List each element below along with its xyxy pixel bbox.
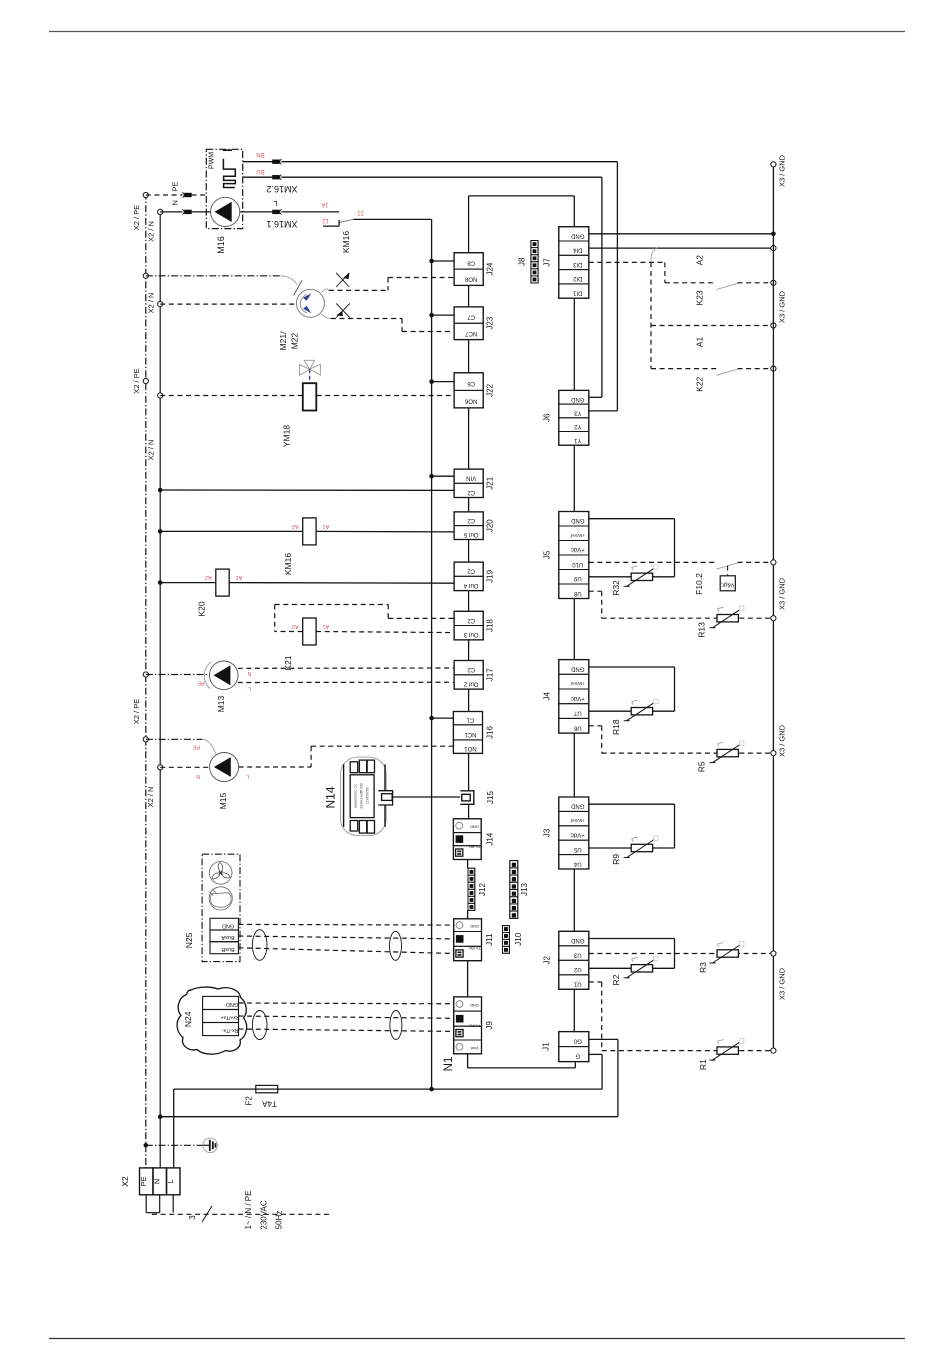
svg-text:Out 4: Out 4 <box>463 582 478 588</box>
label M21/ <box>278 331 288 351</box>
svg-text:+Vdc: +Vdc <box>571 695 585 701</box>
contact KM16 terminal 12 <box>323 220 339 226</box>
terminal N24 Rx+/Tx+ <box>203 1010 240 1023</box>
wire YM18 to NO6 dashed <box>317 395 454 397</box>
cable marker N25 far <box>390 931 402 960</box>
label M15 PE <box>193 744 201 750</box>
pin XM16.1 L <box>272 209 281 214</box>
junction bus J24 <box>429 259 434 264</box>
svg-text:Vout: Vout <box>470 1046 479 1051</box>
wire BU down to J6 GND <box>589 177 602 397</box>
svg-text:X3 / GND: X3 / GND <box>778 154 787 187</box>
label N <box>171 200 180 205</box>
svg-text:K23: K23 <box>695 290 705 305</box>
cable marker N24 near <box>252 1011 267 1040</box>
wire chain J24-J23 <box>468 285 470 307</box>
label BU <box>256 168 264 174</box>
connector J19 <box>454 562 494 591</box>
wire J5 U10 dashed <box>589 561 774 563</box>
svg-text:J4: J4 <box>543 692 552 701</box>
svg-text:L: L <box>248 685 251 691</box>
svg-text:N: N <box>196 773 200 779</box>
svg-text:XM16.1: XM16.1 <box>266 219 297 229</box>
wire M21 upper switch to NO8 <box>329 278 454 291</box>
wire K22 line <box>651 368 773 370</box>
connector J7 <box>543 227 589 299</box>
wire X2 stubs <box>146 1195 173 1213</box>
svg-text:M13: M13 <box>216 695 226 712</box>
svg-text:J20: J20 <box>486 519 495 532</box>
header J8 <box>517 241 538 284</box>
svg-text:BusA: BusA <box>221 934 234 940</box>
module N14 buttons bottom <box>350 821 374 834</box>
svg-text:NO6: NO6 <box>464 398 477 404</box>
wire J2 GND loop <box>589 939 675 969</box>
wire chain J3-J2 <box>573 869 575 931</box>
svg-text:C6: C6 <box>467 380 475 386</box>
leader M21 PE <box>281 276 302 296</box>
node X2/N tap M21 <box>147 293 163 314</box>
svg-text:DI3: DI3 <box>572 261 582 267</box>
leader M13 PE <box>204 662 211 689</box>
label PE <box>171 181 180 191</box>
label T4A <box>262 1099 277 1108</box>
wire M13 PE <box>146 674 208 676</box>
svg-text:G: G <box>575 1053 580 1059</box>
node U10 circle <box>771 560 776 565</box>
connector J11 <box>454 919 494 961</box>
svg-text:X3 / GND: X3 / GND <box>778 967 787 1000</box>
svg-text:ddddeeeeffff 999: ddddeeeeffff 999 <box>359 783 363 808</box>
pin XM16.2 BU <box>272 175 281 180</box>
junction X2/N K20 <box>158 580 163 585</box>
node X2/PE tap M13 <box>132 672 148 724</box>
wire J9 Vout to J1 G <box>468 1054 576 1068</box>
leader M15 PE <box>203 739 216 754</box>
wire M16 PE to rail <box>146 194 207 196</box>
wire N long <box>160 1116 618 1118</box>
motor M21/M22 arc arrow <box>300 293 311 313</box>
wire chain J20-J19 <box>468 540 470 563</box>
svg-text:X2 / PE: X2 / PE <box>132 699 141 724</box>
svg-text:DI4: DI4 <box>572 247 582 253</box>
terminal N25 BusA <box>210 930 238 942</box>
module N14 plug <box>378 791 392 805</box>
node R3 circle <box>771 951 776 956</box>
label 3 <box>188 1215 197 1220</box>
svg-text:J19: J19 <box>486 569 495 582</box>
wire X2/PE rail <box>145 193 147 1168</box>
svg-text:DI2: DI2 <box>572 275 582 281</box>
svg-text:14: 14 <box>321 201 328 207</box>
label R5 <box>697 761 707 772</box>
svg-text:+5V/ref: +5V/ref <box>570 533 585 538</box>
wire M13 N <box>238 667 454 669</box>
wire bus to J1 G <box>432 1054 602 1089</box>
pin XM16.2 BN <box>272 159 281 164</box>
label K20 <box>196 601 206 616</box>
connector J18 <box>454 611 494 640</box>
label A2 <box>695 255 705 266</box>
wire K23 line <box>665 282 774 284</box>
wire M16 L <box>240 211 339 213</box>
resistor R3 (NTC sensor) <box>710 942 744 964</box>
svg-text:U6: U6 <box>573 724 581 730</box>
label supply <box>244 1191 283 1230</box>
wire 21 to bus <box>353 219 431 261</box>
terminal N25 GND <box>210 918 238 930</box>
svg-text:G0: G0 <box>573 1038 582 1044</box>
motor M21/M22 circle <box>296 289 324 317</box>
wire main L bus <box>431 261 433 1089</box>
connector J2 <box>543 931 589 989</box>
svg-text:+5V/ref: +5V/ref <box>570 681 585 686</box>
module N14 outline <box>341 757 387 836</box>
label N24 <box>183 1011 193 1027</box>
PWM symbol <box>223 150 235 187</box>
coil K21 <box>303 618 316 645</box>
svg-text:PE: PE <box>139 1176 148 1186</box>
resistor R1 (NTC sensor) <box>710 1039 744 1061</box>
wire chain J23-J22 <box>468 340 470 373</box>
label 12 <box>322 217 329 223</box>
connector J9 <box>454 997 494 1054</box>
wire X3/GND bus <box>772 164 774 1050</box>
pin M16 N <box>182 209 191 214</box>
connector J23 <box>454 307 494 340</box>
svg-text:L: L <box>273 199 277 208</box>
resistor R32 (NTC sensor) <box>624 565 658 587</box>
resistor R9 (NTC sensor) <box>624 836 658 858</box>
label K21 A2 <box>292 623 299 629</box>
svg-text:PWM: PWM <box>209 152 216 169</box>
svg-text:PE: PE <box>193 744 201 750</box>
wire chain J18-J17 <box>468 640 470 661</box>
wire M15 PE <box>146 738 203 740</box>
label A1 <box>695 336 705 347</box>
fan symbol N25 <box>209 862 232 885</box>
svg-text:F2: F2 <box>245 1096 254 1106</box>
wire N24 GND to J9 <box>239 1002 454 1005</box>
wire J4 U7 to R18 <box>589 710 631 712</box>
label K20 A2 <box>205 574 212 580</box>
wire A1 branch vertical <box>650 262 652 368</box>
svg-text:KM16: KM16 <box>341 231 351 253</box>
wire bus to J24 C8 <box>432 260 455 262</box>
junction bus J16 <box>429 716 434 721</box>
svg-text:BusB: BusB <box>221 946 234 952</box>
wire BN down to Y3 <box>589 162 618 411</box>
svg-text:Rx-/Tx-: Rx-/Tx- <box>221 1027 238 1033</box>
svg-text:C1: C1 <box>466 717 474 723</box>
wire bus to J22 C6 <box>432 381 455 383</box>
svg-text:C2: C2 <box>467 617 475 623</box>
wire N25 BusB to J11 <box>238 948 453 954</box>
wire chain J17-J16 <box>468 689 470 711</box>
cable marker N24 far <box>390 1011 402 1040</box>
label X3/GND top <box>778 154 787 187</box>
wire X2/N to J21 C2 <box>160 489 454 491</box>
svg-text:N24: N24 <box>183 1011 193 1027</box>
linkage M21 upper <box>322 289 329 293</box>
svg-text:M22: M22 <box>290 332 300 349</box>
wire chain J21-J20 <box>468 498 470 512</box>
wire J4 GND loop <box>589 667 675 711</box>
wire K20 coil <box>160 582 454 585</box>
svg-text:A1: A1 <box>323 623 330 629</box>
wire M21 N dashed <box>160 303 296 305</box>
pump M16 enclosure (dash-dot box) <box>206 149 242 228</box>
contact K23 arm <box>717 283 739 289</box>
svg-text:M16: M16 <box>216 236 226 254</box>
wire J2 U3 dashed <box>589 953 774 955</box>
svg-text:3: 3 <box>188 1215 197 1220</box>
svg-text:BU: BU <box>256 168 264 174</box>
svg-text:GND: GND <box>570 666 584 672</box>
label L <box>273 199 277 208</box>
svg-text:R18: R18 <box>611 719 621 735</box>
label M13 <box>216 695 226 712</box>
svg-text:U5: U5 <box>573 846 581 852</box>
wire fuse to bus <box>278 1088 432 1090</box>
switch F10.2 (flow switch V>) <box>720 566 735 591</box>
svg-text:U1: U1 <box>573 981 581 987</box>
svg-text:C2: C2 <box>467 666 475 672</box>
wire chain J16-J15 <box>468 753 470 790</box>
svg-text:A2: A2 <box>292 623 299 629</box>
svg-text:GND: GND <box>470 924 479 929</box>
node R13 circle <box>771 616 776 621</box>
svg-text:VIN: VIN <box>466 475 476 481</box>
connector J14 <box>453 819 494 860</box>
label XM16.2 <box>266 184 297 194</box>
node X2/PE tap M16 <box>132 192 148 230</box>
valve YM18 symbol <box>300 360 321 383</box>
label 21 <box>357 210 364 216</box>
label K21 A1 <box>323 623 330 629</box>
wire chain J22-J21 <box>468 408 470 469</box>
svg-text:M15: M15 <box>218 792 228 809</box>
pin M16 PE <box>182 192 191 197</box>
compressor symbol N25 <box>209 887 232 910</box>
svg-text:GND: GND <box>222 922 234 928</box>
label M15 L <box>246 773 249 779</box>
svg-text:V&gt;: V&gt; <box>721 582 735 588</box>
cable mark 3-core <box>152 1206 330 1222</box>
label KM16 A1 <box>323 523 330 529</box>
svg-text:R3: R3 <box>698 962 708 973</box>
node X2/N tap M15 <box>146 765 163 808</box>
wire chain J14-J12 <box>467 860 469 869</box>
svg-text:Out 3: Out 3 <box>463 631 478 637</box>
contact F10.2 arm <box>717 563 739 569</box>
svg-text:U7: U7 <box>573 710 581 716</box>
svg-text:Y3: Y3 <box>573 409 581 415</box>
node X2/N tap YM18 <box>147 393 163 461</box>
svg-text:U10: U10 <box>572 561 584 567</box>
wire J7 GND to X3 bus <box>589 233 774 235</box>
node R5 circle <box>771 751 776 756</box>
resistor R13 (NTC sensor) <box>710 606 744 628</box>
svg-text:U2: U2 <box>573 966 581 972</box>
label J15 <box>486 791 495 804</box>
node A1 circle <box>771 323 776 328</box>
wire M13 L <box>238 681 454 683</box>
wire J7 DI3 dashed <box>589 262 665 282</box>
resistor R2 (NTC sensor) <box>624 956 658 978</box>
svg-text:Rx+/Tx+: Rx+/Tx+ <box>220 1014 239 1020</box>
svg-text:C2: C2 <box>467 517 475 523</box>
svg-text:J7: J7 <box>543 258 552 267</box>
wire chain J11-J9 <box>467 961 469 997</box>
svg-text:L: L <box>246 773 249 779</box>
svg-text:J14: J14 <box>486 832 495 845</box>
label R1 <box>698 1059 708 1070</box>
svg-text:YM18: YM18 <box>282 425 292 447</box>
wire M21 PE dash-dot <box>146 275 281 277</box>
header J13 <box>510 861 529 919</box>
label M22 <box>290 332 300 349</box>
wire M16 BN <box>243 161 618 163</box>
svg-text:J1: J1 <box>541 1042 550 1051</box>
svg-text:230VAC: 230VAC <box>259 1200 268 1229</box>
svg-text:R13: R13 <box>697 622 707 638</box>
wire J5 U9 to R32 <box>589 576 631 578</box>
svg-text:C8: C8 <box>467 259 475 265</box>
svg-text:J16: J16 <box>486 726 495 739</box>
svg-text:J12: J12 <box>478 883 487 896</box>
wire KM16 coil <box>160 530 454 533</box>
svg-text:GND: GND <box>226 1001 238 1007</box>
svg-text:U3: U3 <box>573 952 581 958</box>
svg-text:GND: GND <box>570 396 584 402</box>
svg-text:GND: GND <box>570 232 584 238</box>
svg-text:C2: C2 <box>467 568 475 574</box>
label BN <box>256 151 264 157</box>
module N24 cloud <box>177 987 247 1054</box>
label M16 <box>216 236 226 254</box>
module N14 display text <box>353 783 369 808</box>
actuator YM18 body <box>303 383 317 410</box>
wire J24 C8 up to J7 <box>469 196 575 253</box>
label X3/GND 4 <box>778 724 787 757</box>
label M13 PE <box>197 679 205 685</box>
wire J7 DI4 to X3 <box>589 247 774 249</box>
svg-text:X2 / N: X2 / N <box>147 293 156 314</box>
connector J15 <box>460 791 474 805</box>
svg-text:NC7: NC7 <box>465 330 478 336</box>
svg-text:J8: J8 <box>517 257 526 266</box>
resistor R18 (NTC sensor) <box>624 699 658 721</box>
label M15 N <box>196 773 200 779</box>
label R9 <box>611 854 621 865</box>
junction X2/N bottom <box>158 1114 163 1119</box>
limit switch M21 upper <box>336 273 349 287</box>
wire K21 A2 loop <box>275 605 454 632</box>
svg-text:N1: N1 <box>443 1057 455 1072</box>
svg-text:12: 12 <box>322 217 329 223</box>
wire M22 lower switch to NC7 <box>331 319 454 332</box>
junction X3 GND <box>771 232 776 237</box>
node K22 circle <box>771 366 776 371</box>
node DI4 circle <box>771 246 776 251</box>
svg-text:N25: N25 <box>184 932 194 948</box>
label K20 A1 <box>236 574 243 580</box>
wire N25 GND to J11 <box>238 923 453 926</box>
wire J2 U2 to R2 <box>589 967 631 969</box>
wire chain J6-J5 <box>573 445 575 511</box>
svg-text:J2: J2 <box>543 956 552 965</box>
label F2 <box>245 1096 254 1106</box>
connector J16 <box>453 712 494 754</box>
svg-text:aaaabbbbcc ccc: aaaabbbbcc ccc <box>353 783 357 808</box>
node K23 circle <box>771 280 776 285</box>
contact KM16 arm <box>340 219 354 222</box>
ground symbol <box>146 1138 218 1153</box>
svg-text:+5V/ref: +5V/ref <box>570 818 585 823</box>
svg-text:GND: GND <box>570 803 584 809</box>
label X3/GND 5 <box>778 967 787 1000</box>
connector J22 <box>454 373 494 408</box>
svg-text:J15: J15 <box>486 791 495 804</box>
wire bus to J21 VIN <box>432 475 455 477</box>
label KM16 coil <box>283 553 293 575</box>
wire M15 N <box>160 766 209 768</box>
connector J3 <box>543 797 589 869</box>
wire chain J2-J1 <box>573 989 575 1031</box>
junction bus J23 <box>429 313 434 318</box>
node X2/PE label mid <box>132 368 148 393</box>
terminal X2 L <box>166 1168 180 1195</box>
fuse F2 <box>256 1085 278 1092</box>
node X2/PE tap M15 <box>143 737 148 742</box>
node R1 circle <box>771 1048 776 1053</box>
wire J5 U8 dashed <box>589 591 774 618</box>
svg-text:NO1: NO1 <box>464 745 477 751</box>
svg-text:GND: GND <box>470 825 479 830</box>
label 14 <box>321 201 328 207</box>
wire X2/N rail <box>159 212 161 1168</box>
label R3 <box>698 962 708 973</box>
svg-text:N14: N14 <box>324 786 338 808</box>
label YM18 <box>282 425 292 447</box>
svg-text:X3 / GND: X3 / GND <box>778 724 787 757</box>
svg-text:GND: GND <box>470 1003 479 1008</box>
svg-text:N: N <box>247 670 251 676</box>
svg-text:Y2: Y2 <box>573 423 581 429</box>
connector J17 <box>454 661 494 690</box>
svg-text:KM16: KM16 <box>283 553 293 575</box>
label N1 <box>443 1057 455 1072</box>
linkage M21 lower <box>322 314 331 319</box>
label XM16.1 <box>266 219 297 229</box>
wire chain J15-J14 <box>468 804 470 819</box>
svg-text:J13: J13 <box>520 883 529 896</box>
wire M15 L <box>239 746 454 767</box>
svg-text:Tx /Rx: Tx /Rx <box>469 1024 481 1029</box>
connector J5 <box>543 512 589 599</box>
wire bus to J23 C7 <box>432 314 455 316</box>
wire M16 N to rail <box>160 211 210 213</box>
label R32 <box>611 580 621 596</box>
node X2/PE tap M21 <box>143 273 148 278</box>
svg-text:A2: A2 <box>205 574 212 580</box>
svg-text:U9: U9 <box>573 575 581 581</box>
junction X2/N KM16 <box>158 529 163 534</box>
wire M16 BU <box>243 176 602 178</box>
svg-text:21: 21 <box>357 210 364 216</box>
wire J3 U5 to R9 <box>589 847 631 849</box>
